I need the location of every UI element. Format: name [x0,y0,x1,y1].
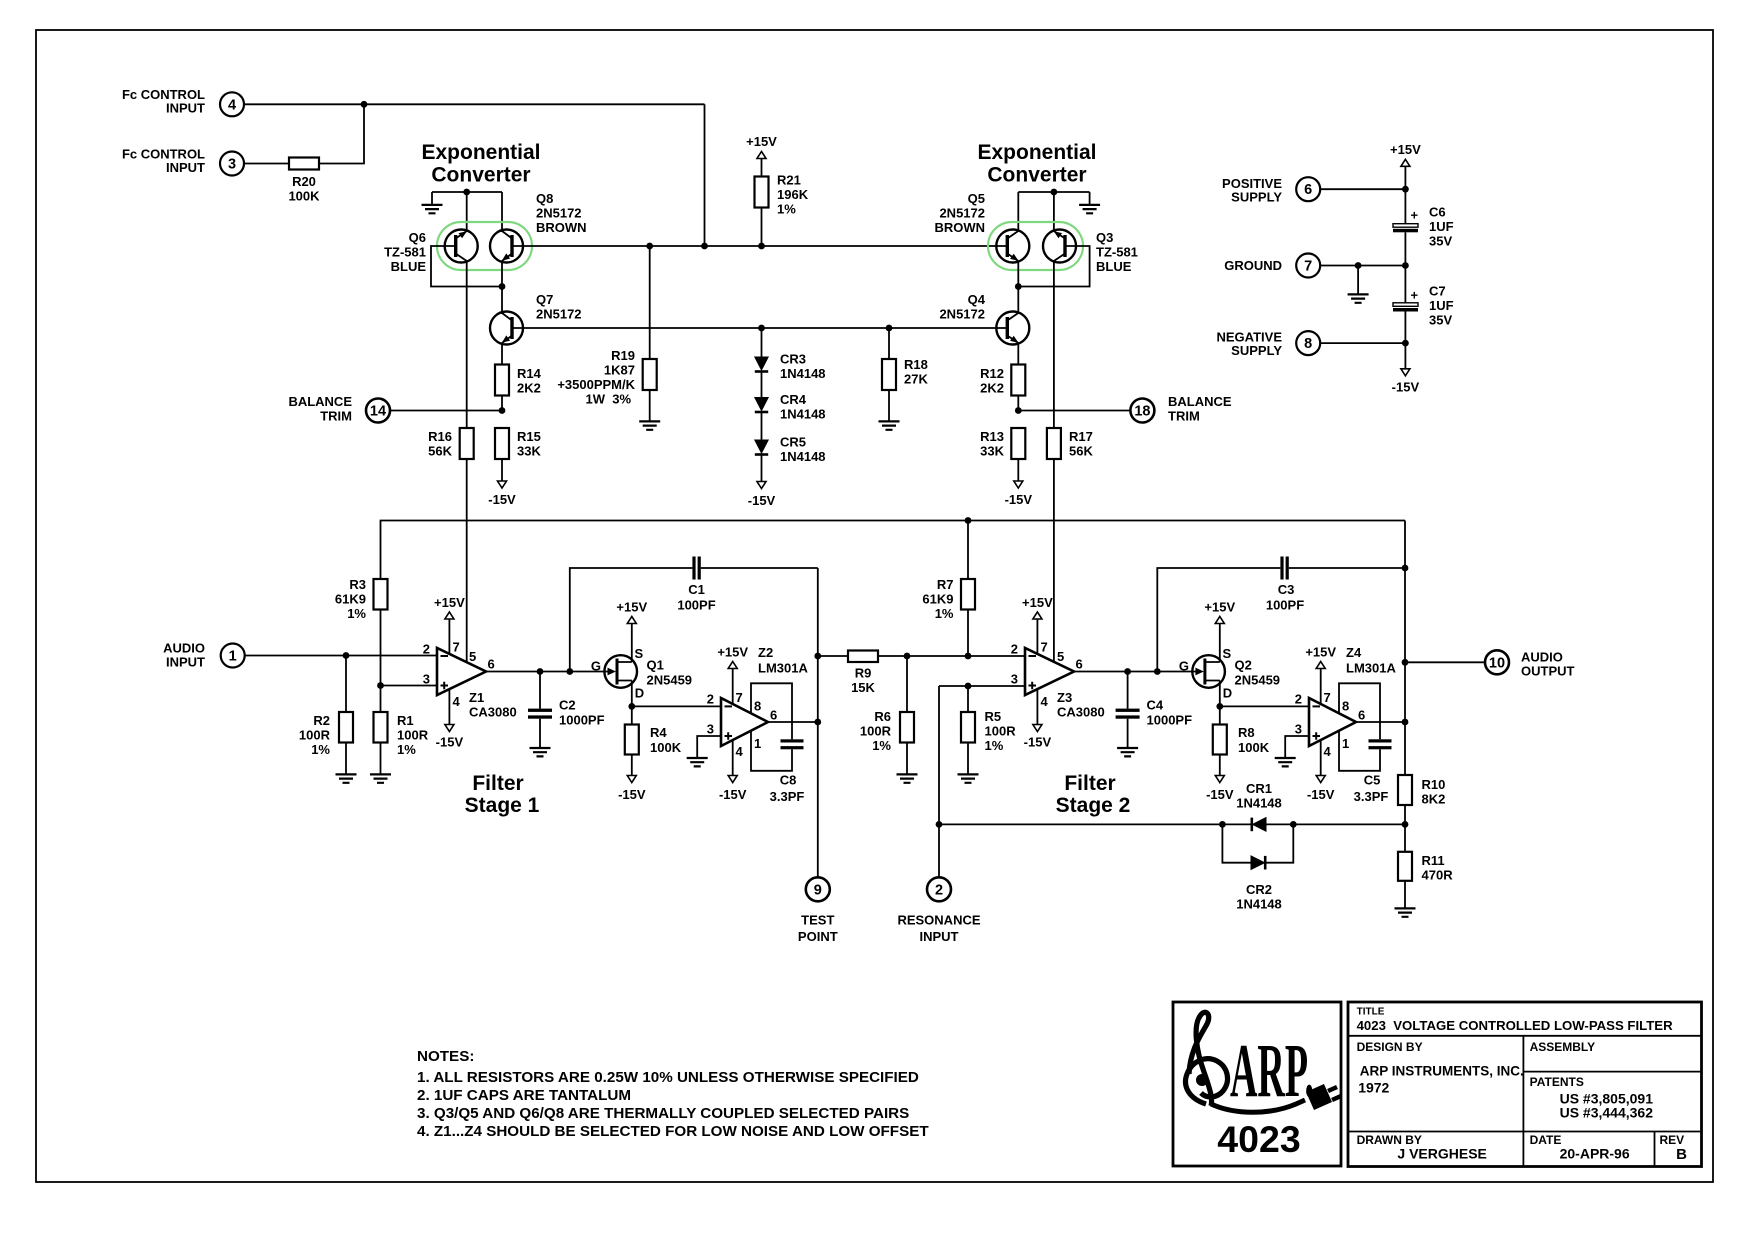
title block frame [1348,1002,1702,1167]
label Q6 [384,230,426,274]
wire rail 2 to CR3 [761,328,763,357]
wire to audio output [1405,661,1485,663]
svg-text:TZ-581: TZ-581 [384,245,426,260]
wire Z3 pin 4 [1036,689,1038,725]
label terminal 2 [897,882,980,944]
svg-text:BLUE: BLUE [391,259,427,274]
junction balance trim left [499,407,506,414]
svg-text:6: 6 [1358,708,1365,723]
diode CR5 1N4148 [755,440,768,455]
svg-text:1K87: 1K87 [604,363,635,378]
svg-text:Exponential: Exponential [977,141,1096,164]
svg-text:6: 6 [1304,182,1312,198]
junction C3 right [1402,565,1409,572]
junction Q6 collector node [463,189,470,196]
label R20 100K [288,174,320,204]
svg-text:CA3080: CA3080 [469,705,517,720]
junction Fc input node [361,101,368,108]
svg-text:+15V: +15V [746,134,777,149]
diode CR4 1N4148 [755,398,768,413]
power +15V Z2 pin 7 [728,662,737,669]
svg-text:35V: 35V [1429,234,1452,249]
transistor Q4 2N5172 [996,312,1029,345]
svg-text:Q4: Q4 [968,292,986,307]
svg-text:2: 2 [707,692,714,707]
wire output riser (feedback bus to R10) [1404,521,1406,776]
svg-text:1N4148: 1N4148 [780,407,826,422]
svg-text:C2: C2 [559,698,576,713]
svg-text:R6: R6 [874,709,891,724]
svg-text:G: G [1179,659,1189,674]
svg-text:470R: 470R [1422,868,1454,883]
svg-text:BALANCE: BALANCE [1168,394,1232,409]
label terminal 18 [1134,394,1232,424]
wire audio input to Z1 pin 2 [245,655,437,657]
junction R19 tap [646,243,653,250]
wire vertical from Fc line down to converter rail [704,104,706,246]
power +15V Q1 source [627,617,636,624]
label Z1 pins [423,640,495,710]
label CR3 [780,352,826,382]
resistor R4 [631,706,633,724]
resistor R14 [495,365,509,396]
svg-text:1000PF: 1000PF [1147,713,1193,728]
ground below R5 [958,774,979,782]
svg-text:Filter: Filter [1064,772,1115,795]
wire balance trim 14 [390,410,502,412]
junction resonance riser [936,821,943,828]
wire R19 from rail [649,246,651,359]
svg-text:20-APR-96: 20-APR-96 [1560,1146,1630,1162]
terminal 14 BALANCE TRIM [366,399,390,423]
label R8 100K [1238,725,1270,755]
wire Q4 emitter to R12 [1017,343,1019,365]
svg-text:100K: 100K [288,189,320,204]
svg-text:Q6: Q6 [409,230,426,245]
label Q3 [1096,230,1138,274]
label CR4 [780,392,826,422]
svg-text:BLUE: BLUE [1096,259,1132,274]
junction R1/R3 on pin 3 line [377,682,384,689]
label Q2 2N5459 G S D [1179,646,1280,701]
resistor R19 [643,359,657,390]
svg-text:+15V: +15V [616,600,647,615]
wire Q1 source to +15V [631,624,633,663]
label Q8 [536,191,587,235]
wire Q2 source to +15V [1219,624,1221,663]
label C8 3.3PF [770,773,805,805]
junction R7 tap on feedback bus [965,517,972,524]
junction C2 tap [537,668,544,675]
svg-text:8: 8 [1342,699,1349,714]
resistor R15 [495,428,509,459]
svg-text:AUDIO: AUDIO [1521,650,1563,665]
junction audio output tap [1402,659,1409,666]
wire Z1 pin 4 [448,689,450,725]
svg-text:1%: 1% [397,742,416,757]
svg-text:100K: 100K [650,740,682,755]
svg-text:R1: R1 [397,713,414,728]
ground below R11 [1395,908,1416,916]
svg-text:CR1: CR1 [1246,781,1272,796]
svg-text:GROUND: GROUND [1224,258,1282,273]
wire converter top rail right [1018,191,1089,193]
svg-text:2: 2 [423,642,430,657]
terminal 2 RESONANCE INPUT [927,877,951,901]
label R21 196K 1% [777,173,809,217]
label R15 33K [517,429,541,459]
terminal 18 BALANCE TRIM [1130,399,1154,423]
wire R17 to Z3 pin 5 [1053,459,1055,662]
svg-text:-15V: -15V [1024,735,1052,750]
wire R15 to -15V [501,459,503,481]
junction Q3 collector node [1051,189,1058,196]
svg-text:7: 7 [1041,640,1048,655]
svg-text:2: 2 [935,882,943,898]
transistor Q3 TZ-581 BLUE [1043,230,1076,263]
terminal 8 NEGATIVE SUPPLY [1296,331,1320,355]
power -15V bottom of supply rail [1401,369,1410,376]
svg-text:BROWN: BROWN [934,220,985,235]
ARP logo treble clef [1186,1012,1228,1106]
wire balance trim 18 [1018,410,1130,412]
wire Z2 output [768,721,818,723]
diode CR3 1N4148 [755,357,768,372]
wire CR5 to -15V [761,455,763,482]
junction ground stub [1355,262,1362,269]
label C5 3.3PF [1354,773,1389,805]
svg-text:Q1: Q1 [647,658,664,673]
wire Q7 emitter to R14 [501,343,503,365]
svg-text:CR2: CR2 [1246,882,1272,897]
junction balance trim right [1015,407,1022,414]
label CR1 [1236,781,1282,811]
label C3 100PF [1266,582,1304,613]
svg-text:2N5172: 2N5172 [536,307,582,322]
svg-text:LM301A: LM301A [1346,661,1396,676]
ground below R18 [879,421,900,429]
svg-text:2N5172: 2N5172 [536,206,582,221]
power +15V Z4 pin 7 [1316,662,1325,669]
svg-text:R21: R21 [777,173,801,188]
svg-text:4: 4 [1041,694,1049,709]
svg-text:R10: R10 [1422,777,1446,792]
wire CR3 to CR4 [761,372,763,398]
wire Z2 pin 7 [732,669,734,705]
svg-text:R8: R8 [1238,725,1255,740]
label terminal 10 [1489,650,1575,679]
power -15V Z4 pin 4 [1316,776,1325,783]
op-amp Z1 CA3080 [437,648,486,695]
svg-text:-15V: -15V [1307,787,1335,802]
svg-text:1972: 1972 [1358,1080,1389,1096]
transistor Q7 2N5172 [490,312,523,345]
wire R12 to balance node [1017,396,1019,411]
ground (right converter top) [1089,192,1091,205]
wire terminal 8 to rail [1320,342,1405,344]
svg-text:TRIM: TRIM [320,409,352,424]
junction pair node right [1015,283,1022,290]
label Z2 LM301A [758,645,808,676]
label R17 56K [1069,429,1093,459]
svg-text:+15V: +15V [717,645,748,660]
label terminal 3 [122,147,236,176]
title block text [1357,1007,1688,1164]
svg-text:C8: C8 [780,773,797,788]
capacitor C3 100PF feedback [1157,557,1405,672]
wire Q3 base wrap to pair emitter node [1018,246,1089,287]
svg-text:R20: R20 [292,174,316,189]
svg-text:Exponential: Exponential [421,141,540,164]
svg-text:Filter: Filter [472,772,523,795]
ground Z4 pin 3 [1275,758,1296,766]
wire Q3 collector [1053,192,1055,232]
svg-text:S: S [635,646,644,661]
svg-text:INPUT: INPUT [920,929,959,944]
svg-text:CR4: CR4 [780,392,807,407]
wire Z3 pin 7 [1036,619,1038,654]
svg-text:-15V: -15V [748,493,776,508]
label terminal 8 [1217,330,1313,359]
power -15V Z1 pin 4 [445,725,454,732]
svg-text:1: 1 [229,649,237,665]
svg-text:R3: R3 [349,577,366,592]
wire converter rail 2 (Q7 base to Q4 base) [512,327,1007,329]
ground below R2 [336,774,357,782]
power -15V Z3 pin 4 [1033,725,1042,732]
svg-text:C5: C5 [1364,773,1381,788]
resistor R21 [755,177,769,208]
svg-text:+: + [1411,288,1419,303]
label Z4 LM301A [1346,645,1396,676]
label R6 100R 1% [860,709,892,753]
svg-text:61K9: 61K9 [335,592,366,607]
svg-text:100R: 100R [397,728,429,743]
svg-text:J VERGHESE: J VERGHESE [1397,1146,1486,1162]
label R1 100R 1% [397,713,429,757]
svg-text:27K: 27K [904,372,928,387]
junction Z2 output node [814,719,821,726]
wire R21 to rail [761,208,763,247]
svg-text:REV: REV [1660,1133,1685,1147]
svg-text:US #3,444,362: US #3,444,362 [1560,1105,1654,1121]
label Z2 pins [707,690,777,759]
wire Q5 collector [1017,192,1019,232]
resistor R13 [1011,428,1025,459]
capacitor C5 3.3PF compensation loop [1339,683,1392,771]
wire terminal 6 to rail [1320,188,1405,190]
svg-text:4: 4 [1324,744,1332,759]
svg-text:C7: C7 [1429,284,1446,299]
wire converter rail 1 (Q8 base to Q5 base) [512,245,1007,247]
ARP logo wordmark [1230,1029,1314,1113]
resistor R11 [1404,824,1406,851]
svg-text:DESIGN BY: DESIGN BY [1357,1040,1423,1054]
junction positive supply [1402,186,1409,193]
junction R18 tap [886,325,893,332]
svg-text:R15: R15 [517,429,541,444]
wire Q8 emitter to Q7 collector [501,261,503,314]
svg-text:3: 3 [707,722,714,737]
svg-text:3: 3 [1295,722,1302,737]
label R10 8K2 [1422,777,1446,807]
svg-text:1%: 1% [985,738,1004,753]
wire Z4 output [1356,721,1405,723]
svg-text:Q3: Q3 [1096,230,1113,245]
svg-text:1N4148: 1N4148 [1236,897,1282,912]
svg-text:-15V: -15V [1206,787,1234,802]
svg-text:Z3: Z3 [1057,690,1072,705]
svg-text:R13: R13 [980,429,1004,444]
svg-text:Q5: Q5 [968,191,985,206]
resistor R9 [818,655,848,657]
svg-text:+: + [1411,208,1419,223]
label terminal 6 [1222,176,1312,205]
label Exponential Converter (left) [421,141,540,187]
svg-text:1N4148: 1N4148 [780,366,826,381]
svg-text:15K: 15K [851,680,875,695]
svg-text:6: 6 [770,708,777,723]
terminal 10 AUDIO OUTPUT [1485,650,1509,674]
wire CR2 branch [1222,824,1293,862]
svg-text:2: 2 [1011,642,1018,657]
svg-text:1%: 1% [311,742,330,757]
svg-text:4. Z1...Z4 SHOULD BE SELECTED: 4. Z1...Z4 SHOULD BE SELECTED FOR LOW NO… [417,1123,929,1140]
svg-text:S: S [1223,646,1232,661]
svg-text:1N4148: 1N4148 [780,449,826,464]
power +15V Q2 source [1215,617,1224,624]
wire R14 to balance node [501,396,503,411]
wire +15V to R21 [761,159,763,177]
svg-text:-15V: -15V [436,735,464,750]
ground below C2 [530,748,551,756]
svg-text:AUDIO: AUDIO [163,641,205,656]
svg-text:100PF: 100PF [677,598,715,613]
svg-text:6: 6 [488,657,495,672]
svg-text:1UF: 1UF [1429,219,1454,234]
label R11 470R [1422,853,1454,883]
transistor Q8 2N5172 BROWN [490,230,523,263]
svg-text:2K2: 2K2 [980,381,1004,396]
junction R21 tap [758,243,765,250]
svg-text:1%: 1% [777,202,796,217]
junction diode chain tap [758,325,765,332]
label R4 100K [650,725,682,755]
svg-text:CA3080: CA3080 [1057,705,1105,720]
svg-text:1%: 1% [347,606,366,621]
junction CR1 right [1290,821,1297,828]
svg-text:3. Q3/Q5 AND Q6/Q8 ARE THERMAL: 3. Q3/Q5 AND Q6/Q8 ARE THERMALLY COUPLED… [417,1105,909,1122]
resistor R18 [882,359,896,390]
svg-text:4: 4 [736,744,744,759]
svg-text:4023: 4023 [1217,1118,1300,1160]
label Filter Stage 1 [465,772,540,817]
capacitor C2 1000PF [528,672,552,748]
svg-text:INPUT: INPUT [166,160,205,175]
op-amp Z4 LM301A [1309,698,1356,746]
svg-text:C4: C4 [1147,698,1164,713]
svg-text:PATENTS: PATENTS [1530,1075,1584,1089]
resistor R3 [374,579,388,610]
svg-text:1%: 1% [935,606,954,621]
ground below R1 [370,774,391,782]
svg-text:8: 8 [1304,336,1312,352]
svg-text:1N4148: 1N4148 [1236,796,1282,811]
resistor R2 [345,656,347,713]
svg-text:1: 1 [1342,736,1349,751]
svg-text:Z1: Z1 [469,690,484,705]
wire Z3 output [1074,671,1196,673]
svg-text:18: 18 [1134,404,1150,420]
wire R18 to ground [888,390,890,421]
junction ground rail [1402,262,1409,269]
terminal 4 Fc CONTROL INPUT [220,92,244,116]
junction CR1 left [1219,821,1226,828]
label R19 1K87 +3500PPM/K 1W 3% [557,348,635,407]
resistor R20 [289,158,319,170]
title block dividers [1348,1035,1702,1037]
label terminal 9 [798,882,838,944]
transistor Q5 2N5172 BROWN [996,230,1029,263]
wire terminal 3 to R20 [244,163,289,165]
svg-text:SUPPLY: SUPPLY [1231,190,1282,205]
capacitor C6 1UF 35V [1393,224,1418,233]
svg-text:POINT: POINT [798,929,838,944]
svg-text:56K: 56K [428,444,452,459]
op-amp Z2 LM301A [721,698,768,746]
svg-text:4: 4 [453,694,461,709]
svg-text:BROWN: BROWN [536,220,587,235]
svg-text:R12: R12 [980,366,1004,381]
svg-text:+15V: +15V [1204,600,1235,615]
resistor R5 [967,686,969,712]
wire feedback bus (R3 top to stage 2) [381,521,1406,580]
resistor R17 [1047,428,1061,459]
label R3 61K9 1% [335,577,367,621]
svg-text:2K2: 2K2 [517,381,541,396]
svg-text:TRIM: TRIM [1168,409,1200,424]
svg-text:100PF: 100PF [1266,598,1304,613]
junction Fc feed [701,243,708,250]
svg-text:CR5: CR5 [780,435,806,450]
power -15V below R8 [1215,776,1224,783]
junction R6 tap [904,653,911,660]
label 4023 logo [1217,1118,1300,1160]
svg-text:C1: C1 [688,582,705,597]
svg-text:TEST: TEST [801,912,834,927]
svg-text:-15V: -15V [488,492,516,507]
power +15V Z1 pin 7 [445,612,454,619]
resistor R7 [967,521,969,580]
wire R16 to Z1 pin 5 [466,459,468,662]
wire Q5 emitter to Q4 collector [1017,261,1019,314]
resistor R8 [1219,706,1221,724]
svg-text:3: 3 [423,672,430,687]
svg-text:2N5172: 2N5172 [939,307,985,322]
junction C1 tap [566,668,573,675]
svg-text:+15V: +15V [1390,142,1421,157]
svg-text:7: 7 [1304,259,1312,275]
wire Z1 pin 7 [448,619,450,654]
svg-text:100K: 100K [1238,740,1270,755]
svg-text:ARP INSTRUMENTS, INC.: ARP INSTRUMENTS, INC. [1360,1064,1524,1079]
svg-text:+3500PPM/K: +3500PPM/K [557,377,635,392]
power -15V below R15 [498,481,507,488]
svg-text:Q8: Q8 [536,191,553,206]
svg-text:1UF: 1UF [1429,298,1454,313]
svg-text:4023 VOLTAGE CONTROLLED LOW-P: 4023 VOLTAGE CONTROLLED LOW-PASS FILTER [1357,1018,1673,1033]
svg-text:R19: R19 [611,348,635,363]
